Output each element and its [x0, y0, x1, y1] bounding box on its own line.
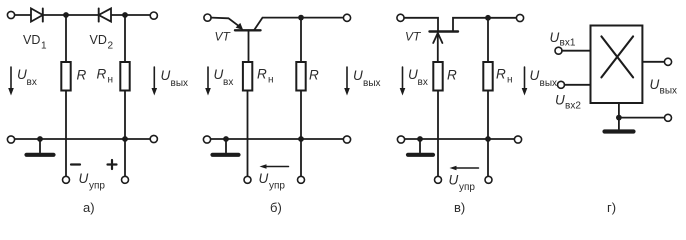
svg-text:U: U	[17, 67, 27, 82]
node junction bottom R b	[298, 136, 304, 142]
wire R branch v	[437, 62, 439, 176]
arrow Uupr v	[450, 166, 479, 171]
wire emitter lead b	[211, 18, 243, 30]
svg-text:1: 1	[41, 41, 47, 52]
wire to reference terminal g	[619, 117, 664, 119]
wire R branch b	[300, 18, 302, 177]
terminal bottom-right b	[343, 136, 350, 143]
ground (circuit g)	[605, 118, 634, 132]
svg-text:U: U	[353, 68, 363, 83]
label Rn (circuit b)	[257, 67, 274, 86]
terminal control-right v	[485, 176, 492, 183]
label VT v	[405, 30, 422, 44]
arrow Uvx a	[8, 67, 14, 96]
wire gate lead v	[404, 18, 438, 32]
diode VD1	[31, 8, 43, 21]
arrow Uvx v	[400, 67, 406, 96]
node junction top Rn a	[122, 12, 128, 18]
ground (circuit b)	[213, 139, 239, 155]
transistor VT (circuit b) base bar	[235, 29, 261, 31]
ground (circuit a)	[27, 139, 54, 155]
svg-text:вх2: вх2	[565, 101, 581, 112]
label Uvx b	[214, 67, 234, 88]
svg-text:2: 2	[108, 41, 114, 52]
label Rn (circuit a)	[97, 67, 114, 86]
wire source lead with arrow v	[433, 33, 442, 62]
svg-text:U: U	[214, 67, 224, 82]
svg-text:U: U	[555, 93, 565, 108]
label VD2	[90, 33, 114, 52]
svg-text:г): г)	[607, 200, 616, 215]
label Uvx2 g	[555, 93, 581, 112]
label VT b	[215, 30, 232, 44]
terminal input2 g	[558, 81, 565, 88]
svg-text:U: U	[550, 30, 560, 45]
label Uupr v	[449, 173, 476, 194]
terminal bottom-right a	[150, 135, 157, 142]
terminal top-right a	[150, 12, 157, 19]
label Rn (circuit v)	[496, 67, 513, 86]
terminal control-left v	[435, 176, 442, 183]
transistor VT (circuit v) bar	[430, 30, 459, 32]
svg-text:U: U	[530, 68, 540, 83]
label Uupr a	[79, 171, 106, 192]
label VD1	[23, 33, 47, 52]
terminal input1 g	[555, 47, 562, 54]
svg-text:упр: упр	[269, 181, 285, 192]
svg-text:б): б)	[270, 200, 282, 215]
wire output g	[642, 61, 664, 63]
svg-text:R: R	[309, 68, 319, 83]
label R (circuit b)	[309, 68, 319, 83]
label Uvx v	[408, 67, 428, 88]
terminal control-left b	[244, 176, 251, 183]
svg-text:вых: вых	[363, 78, 381, 89]
caption g	[607, 200, 616, 215]
svg-text:вых: вых	[540, 78, 558, 89]
resistor Rn (circuit v)	[483, 62, 492, 91]
wire input1 g	[562, 50, 591, 52]
svg-text:VD: VD	[90, 33, 107, 47]
terminal top-left v	[397, 14, 404, 21]
svg-text:упр: упр	[459, 182, 475, 193]
label Uupr b	[259, 171, 286, 192]
svg-text:U: U	[259, 171, 269, 186]
svg-text:вых: вых	[660, 86, 678, 97]
svg-text:R: R	[97, 67, 107, 82]
multiplier X symbol	[601, 36, 633, 77]
terminal top-right b	[343, 14, 350, 21]
multiplier U1 box	[591, 26, 643, 104]
node junction top R b	[298, 15, 304, 21]
wire Rn branch a	[124, 15, 126, 176]
node ground junction b	[223, 136, 229, 142]
svg-text:а): а)	[83, 200, 95, 215]
svg-text:VT: VT	[405, 30, 422, 44]
label plus a	[108, 160, 117, 169]
svg-text:R: R	[77, 68, 87, 83]
svg-text:вых: вых	[171, 78, 189, 89]
label Uvyx v	[530, 68, 558, 89]
label minus a	[71, 163, 80, 165]
node junction top Rn v	[485, 15, 491, 21]
wire collector lead b	[254, 18, 344, 31]
terminal control-left a	[63, 176, 70, 183]
svg-text:упр: упр	[89, 181, 105, 192]
label R (circuit a)	[77, 68, 87, 83]
svg-text:U: U	[408, 67, 418, 82]
node ground junction g	[616, 115, 622, 121]
arrow Uvyx b	[344, 67, 350, 96]
svg-text:U: U	[161, 68, 171, 83]
terminal bottom-left a	[7, 136, 14, 143]
svg-text:н: н	[108, 75, 114, 86]
label Uvyx a	[161, 68, 189, 89]
svg-text:VD: VD	[23, 33, 40, 47]
label R (circuit v)	[447, 68, 457, 83]
wire base branch Rn b	[248, 30, 249, 176]
svg-text:U: U	[650, 77, 660, 92]
arrow Uupr b	[260, 164, 289, 169]
wire bottom rail a	[15, 138, 151, 140]
wire Rn branch v	[487, 18, 489, 177]
node ground junction v	[417, 136, 423, 142]
node junction bottom Rn v	[485, 136, 491, 142]
terminal top-left b	[204, 14, 211, 21]
svg-text:вх: вх	[27, 77, 37, 88]
node ground junction a	[37, 136, 43, 142]
wire drain lead v	[453, 18, 516, 32]
label Uvx a	[17, 67, 37, 88]
caption b	[270, 200, 282, 215]
label Uvyx g	[650, 77, 678, 97]
svg-text:U: U	[449, 173, 459, 188]
svg-text:R: R	[257, 67, 267, 82]
wire top rail a	[15, 14, 151, 16]
svg-text:U: U	[79, 171, 89, 186]
resistor Rn (circuit a)	[120, 62, 129, 91]
terminal top-right v	[516, 14, 523, 21]
svg-text:н: н	[507, 75, 513, 86]
arrow Uvyx v	[522, 67, 528, 96]
arrow Uvx b	[205, 67, 211, 96]
wire bottom rail v	[405, 138, 515, 140]
svg-text:R: R	[447, 68, 457, 83]
arrow Uvyx a	[152, 67, 158, 96]
caption a	[83, 200, 95, 215]
ground (circuit v)	[408, 139, 433, 155]
terminal bottom-left v	[397, 136, 404, 143]
wire input2 g	[565, 84, 591, 86]
wire R branch a	[65, 15, 67, 176]
svg-text:вх: вх	[223, 77, 233, 88]
terminal control-right a	[122, 176, 129, 183]
terminal bottom-right v	[514, 136, 521, 143]
diode VD2	[99, 8, 111, 21]
label Uvyx b	[353, 68, 381, 89]
resistor Rn (circuit b)	[243, 62, 252, 91]
terminal reference g	[665, 114, 672, 121]
svg-text:вх: вх	[418, 77, 428, 88]
svg-text:R: R	[496, 67, 506, 82]
wire box bottom g	[618, 103, 620, 118]
label Uvx1 g	[550, 30, 576, 49]
caption v	[454, 200, 465, 215]
svg-text:вх1: вх1	[560, 38, 576, 49]
resistor R (circuit v)	[433, 62, 442, 91]
terminal bottom-left b	[203, 136, 210, 143]
svg-text:в): в)	[454, 200, 465, 215]
terminal control-right b	[298, 176, 305, 183]
terminal top-left a	[7, 11, 14, 18]
svg-text:VT: VT	[215, 30, 232, 44]
terminal output g	[664, 58, 671, 65]
svg-text:н: н	[268, 75, 274, 86]
node junction bottom Rn a	[122, 136, 128, 142]
node junction top R a	[63, 12, 69, 18]
resistor R (circuit a)	[61, 62, 70, 91]
wire bottom rail b	[211, 138, 344, 140]
resistor R (circuit b)	[296, 62, 305, 91]
